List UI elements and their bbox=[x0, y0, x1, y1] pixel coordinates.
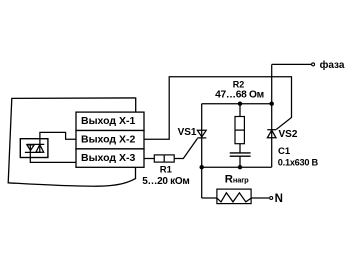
wire top bus bbox=[202, 103, 272, 105]
thyristor VS2 vertical wire bbox=[271, 65, 273, 168]
wire C1 bottom lead bbox=[239, 156, 241, 167]
wire bottom bus bbox=[202, 166, 272, 168]
terminal N bbox=[270, 197, 273, 200]
svg-text:0.1х630 В: 0.1х630 В bbox=[278, 157, 319, 167]
wire VS1 branch vertical bbox=[201, 104, 203, 198]
resistor Rнагр bbox=[217, 189, 251, 204]
device body outline bbox=[8, 98, 136, 186]
node dot R2 top bbox=[238, 102, 242, 106]
wire opto bottom to Выход Х-3 bbox=[30, 144, 76, 162]
thyristor VS2 bbox=[267, 130, 276, 138]
terminal phase bbox=[312, 63, 315, 66]
wire Выход Х-2 to VS2 gate bbox=[144, 77, 292, 140]
svg-text:фаза: фаза bbox=[320, 59, 345, 71]
svg-text:R2: R2 bbox=[233, 79, 245, 89]
svg-text:VS2: VS2 bbox=[279, 129, 298, 140]
wire Rнагр to N bbox=[251, 197, 269, 199]
svg-text:N: N bbox=[275, 193, 283, 205]
svg-text:R: R bbox=[225, 174, 233, 186]
svg-text:47…68 Ом: 47…68 Ом bbox=[215, 90, 264, 101]
svg-text:VS1: VS1 bbox=[178, 127, 197, 138]
thyristor VS1 bbox=[197, 130, 206, 138]
svg-text:C1: C1 bbox=[278, 146, 291, 157]
node dot phase branch bbox=[270, 102, 274, 106]
svg-text:Выход Х-2: Выход Х-2 bbox=[81, 134, 135, 146]
svg-text:Выход Х-3: Выход Х-3 bbox=[81, 152, 135, 164]
wire R1 to VS1 gate bbox=[174, 139, 197, 159]
resistor R1 bbox=[154, 155, 174, 162]
capacitor C1 bbox=[230, 153, 251, 156]
output box Выход Х-3 bbox=[76, 149, 144, 167]
optocoupler U1 box bbox=[20, 139, 48, 158]
wire phase bbox=[272, 63, 311, 65]
svg-text:Выход Х-1: Выход Х-1 bbox=[81, 115, 135, 127]
label Rнагр bbox=[225, 174, 249, 186]
resistor R2 bbox=[235, 117, 244, 144]
wire R2 to C1 bbox=[239, 144, 241, 153]
wire Выход Х-3 to R1 bbox=[144, 158, 154, 160]
output box Выход Х-2 bbox=[76, 131, 144, 149]
svg-text:5…20 кОм: 5…20 кОм bbox=[142, 176, 189, 187]
node dot bottom left bbox=[200, 165, 204, 169]
wire opto top to Выход Х-2 bbox=[40, 132, 76, 144]
svg-text:R1: R1 bbox=[160, 165, 173, 176]
svg-text:нагр: нагр bbox=[233, 176, 249, 185]
optocoupler triac symbol bbox=[25, 144, 44, 152]
node dot C1 bottom bbox=[238, 165, 242, 169]
wire R2 top lead bbox=[239, 104, 241, 117]
output box Выход Х-1 bbox=[76, 112, 144, 130]
wire bottom left to Rнагр bbox=[202, 197, 217, 199]
